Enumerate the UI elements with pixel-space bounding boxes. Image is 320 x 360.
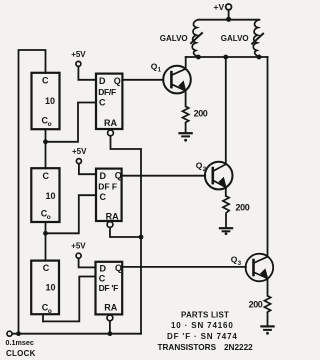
svg-text:Q: Q bbox=[115, 263, 122, 273]
svg-text:Q: Q bbox=[114, 76, 121, 86]
svg-text:D: D bbox=[99, 76, 106, 86]
svg-text:C: C bbox=[99, 273, 106, 283]
svg-text:10 · SN 74160: 10 · SN 74160 bbox=[171, 321, 234, 330]
svg-text:TRANSISTORS: TRANSISTORS bbox=[158, 343, 217, 352]
svg-text:+5V: +5V bbox=[71, 241, 86, 250]
svg-text:0.1msec: 0.1msec bbox=[6, 338, 34, 347]
svg-text:DF F: DF F bbox=[98, 182, 117, 192]
svg-text:o: o bbox=[47, 214, 51, 221]
svg-text:RA: RA bbox=[104, 118, 117, 128]
svg-text:Q: Q bbox=[196, 161, 203, 171]
svg-text:200: 200 bbox=[249, 300, 263, 310]
svg-text:C: C bbox=[100, 192, 107, 202]
svg-text:+V: +V bbox=[214, 2, 225, 12]
svg-text:o: o bbox=[48, 121, 52, 128]
svg-text:C: C bbox=[43, 171, 50, 181]
svg-text:PARTS LIST: PARTS LIST bbox=[181, 311, 229, 320]
svg-text:RA: RA bbox=[106, 211, 119, 221]
svg-text:GALVO: GALVO bbox=[221, 34, 249, 43]
svg-text:Q: Q bbox=[151, 61, 158, 71]
svg-text:200: 200 bbox=[194, 108, 208, 118]
svg-text:C: C bbox=[43, 263, 50, 273]
svg-text:200: 200 bbox=[236, 203, 250, 213]
svg-text:D: D bbox=[100, 171, 107, 181]
svg-text:CLOCK: CLOCK bbox=[6, 349, 36, 358]
svg-text:Q: Q bbox=[231, 255, 238, 265]
svg-text:o: o bbox=[48, 308, 52, 315]
svg-text:C: C bbox=[99, 97, 106, 107]
svg-text:+5V: +5V bbox=[71, 50, 86, 59]
svg-text:D: D bbox=[100, 264, 107, 274]
svg-text:DF/F: DF/F bbox=[98, 87, 116, 97]
svg-text:RA: RA bbox=[104, 302, 117, 312]
svg-text:C: C bbox=[42, 76, 49, 86]
svg-text:2N2222: 2N2222 bbox=[224, 343, 253, 352]
svg-text:10: 10 bbox=[46, 282, 56, 292]
svg-text:+5V: +5V bbox=[72, 147, 87, 156]
svg-text:DF 'F: DF 'F bbox=[99, 283, 119, 293]
svg-text:10: 10 bbox=[45, 96, 55, 106]
svg-text:10: 10 bbox=[46, 191, 56, 201]
svg-text:DF 'F · SN 7474: DF 'F · SN 7474 bbox=[167, 332, 238, 341]
svg-text:GALVO: GALVO bbox=[160, 34, 188, 43]
svg-text:Q: Q bbox=[115, 171, 122, 181]
